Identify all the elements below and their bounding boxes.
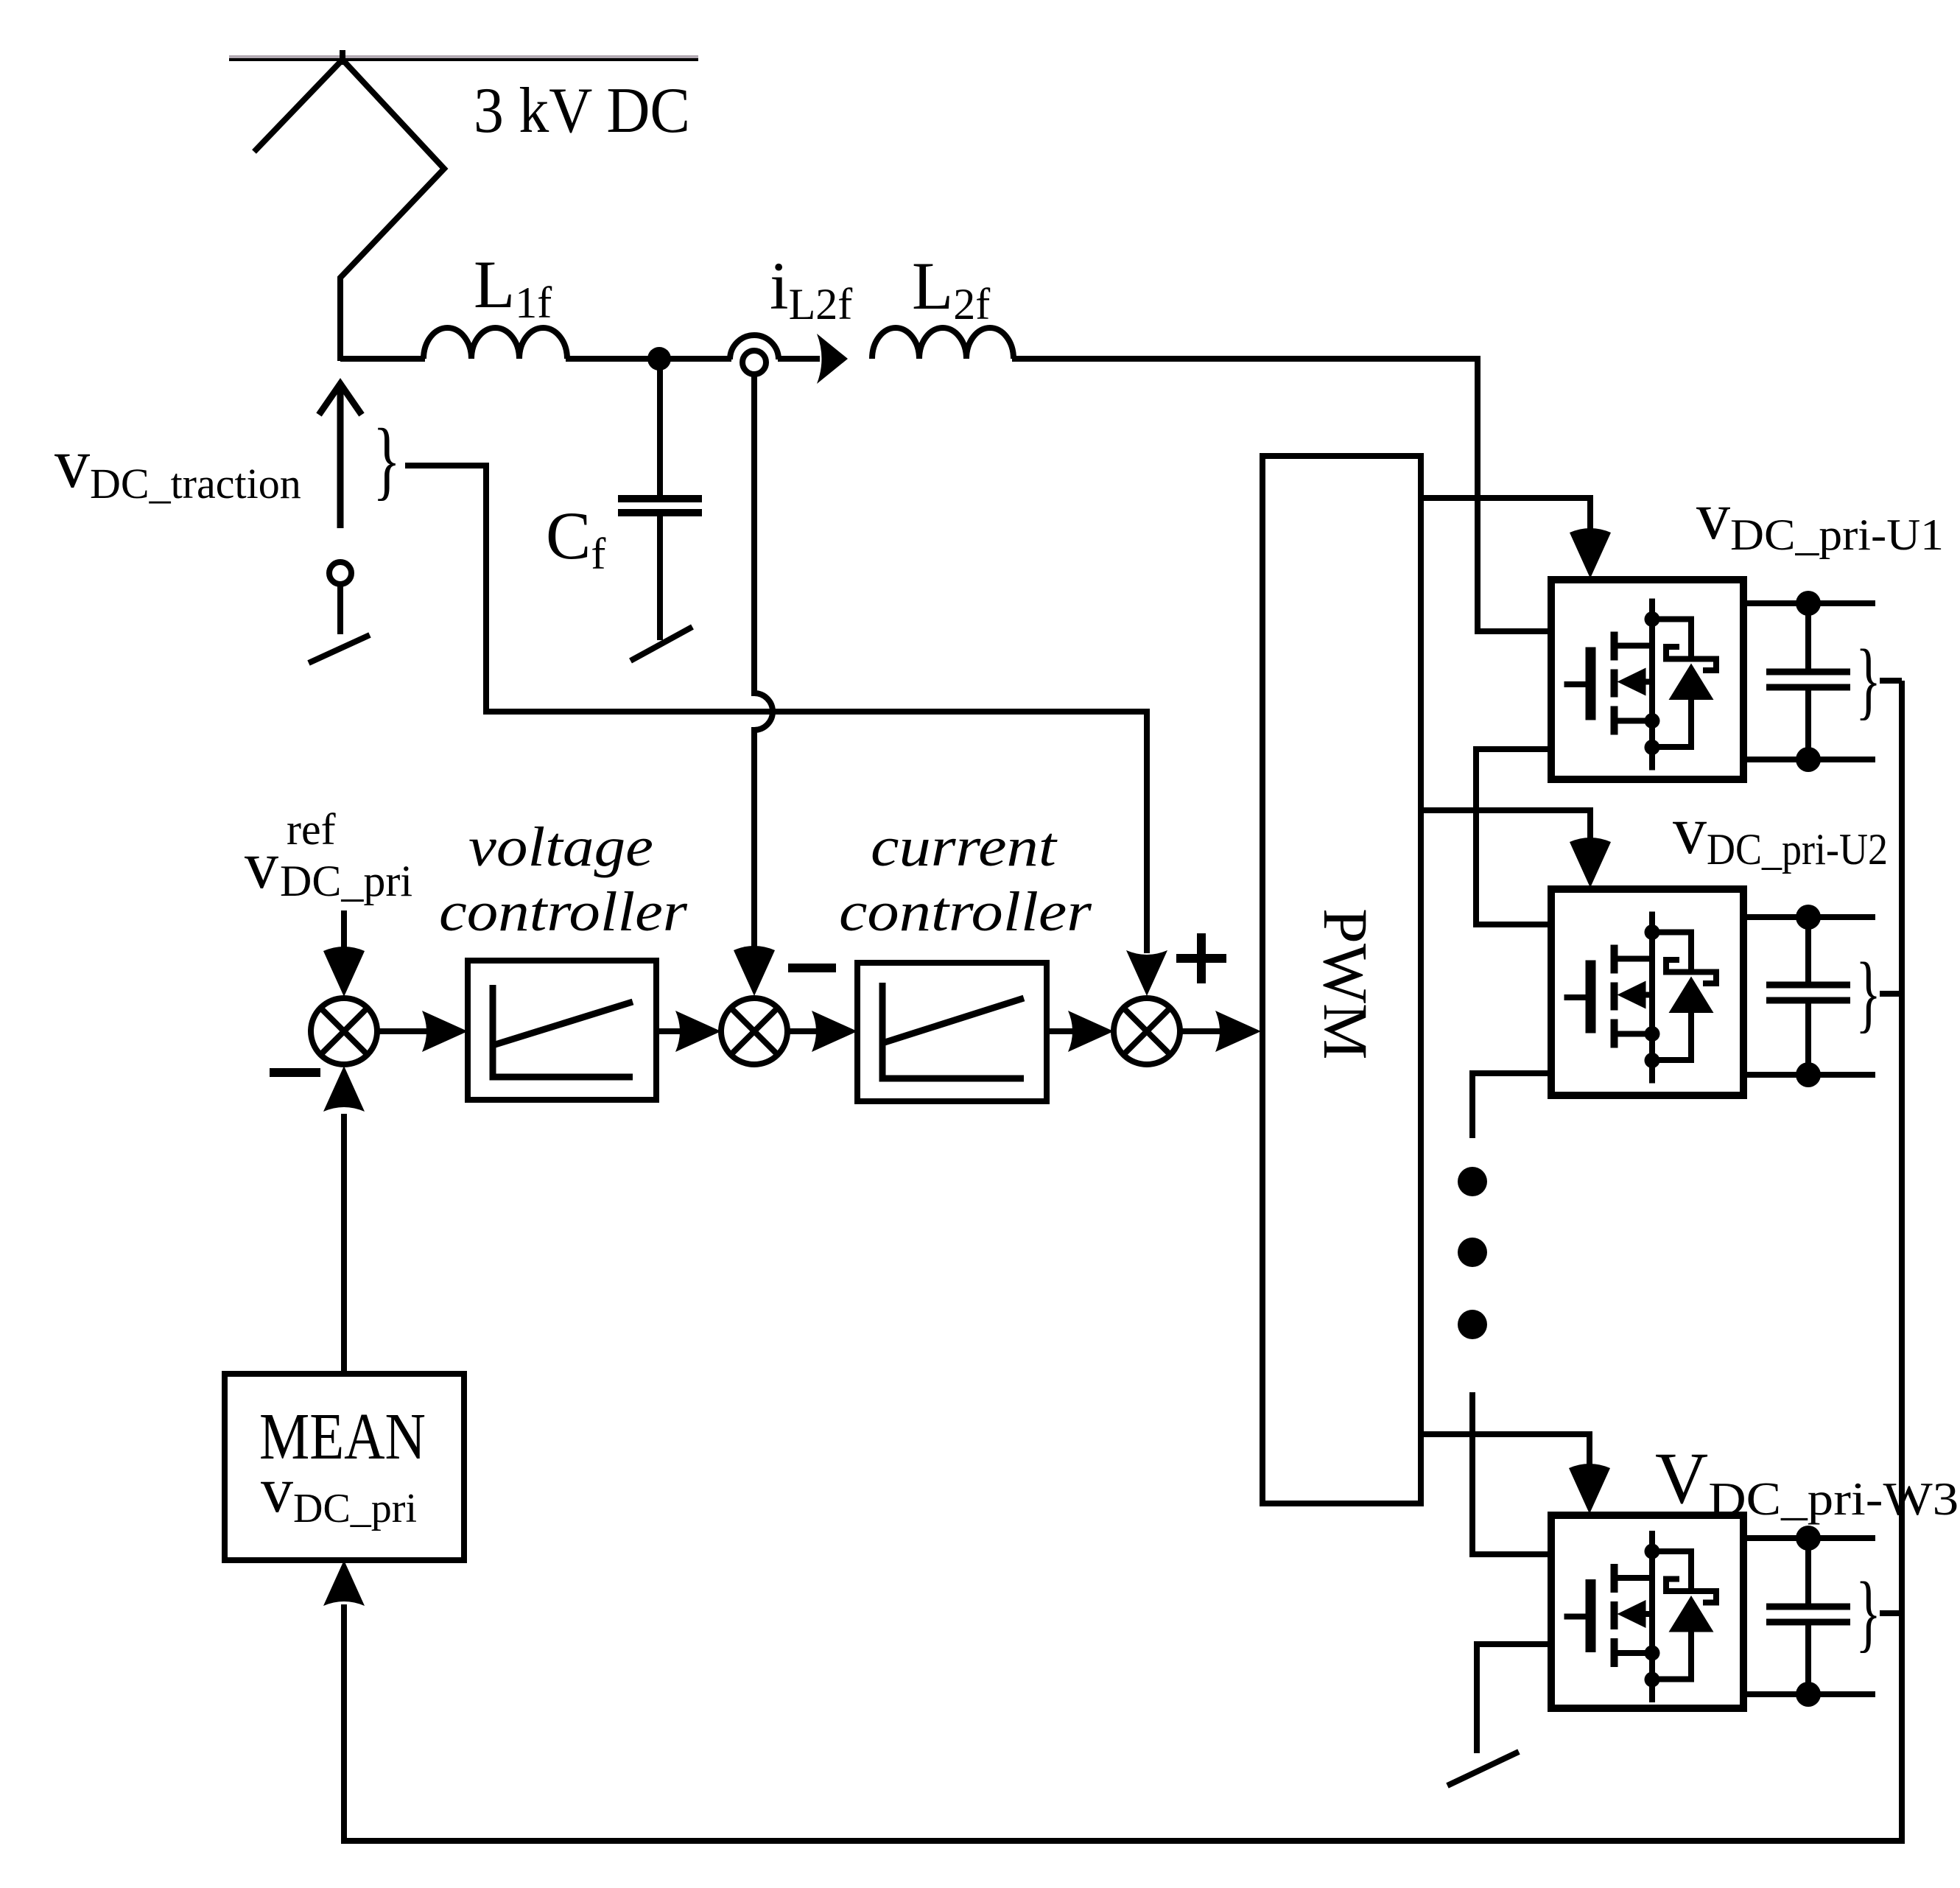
junction dot U1 output negative [1796, 747, 1821, 772]
inductor L2f [872, 328, 1014, 359]
svg-text:current: current [871, 816, 1058, 878]
svg-text:vDC_pri-U1: vDC_pri-U1 [1696, 478, 1944, 559]
converter module W3 [1551, 1515, 1743, 1708]
svg-text:ref: ref [287, 805, 336, 854]
wire W3 output negative [1743, 1691, 1875, 1697]
arrow S1 to voltage controller [378, 1028, 427, 1034]
arrow VC to summing junction S2 [656, 1028, 681, 1034]
svg-text:vDC_pri-U2: vDC_pri-U2 [1673, 793, 1888, 874]
W3 brace wire to bus [1880, 1610, 1902, 1616]
gate line PWM to W3 [1421, 1434, 1590, 1467]
svg-text:PWM: PWM [1310, 908, 1381, 1059]
capacitor U1 output (plates and leads) [1805, 603, 1811, 669]
wire: L1f to current sensor [566, 356, 731, 362]
summing junction S2 [721, 998, 787, 1064]
current controller box [857, 963, 1047, 1101]
probe circle and switch slash [329, 562, 351, 584]
plus sign at S3 [1176, 933, 1226, 983]
wire U1 output negative [1743, 757, 1875, 762]
current sensor iL2f [730, 335, 779, 359]
gate line PWM to U2 [1421, 810, 1590, 841]
wire U1 output positive [1743, 600, 1875, 606]
arrow into S1 from below (feedback) [341, 1114, 347, 1374]
svg-text:}: } [373, 410, 401, 508]
wire: pantograph to L1f [340, 356, 425, 362]
PWM block [1262, 456, 1421, 1503]
ellipsis dot 3 (more modules) [1458, 1310, 1487, 1339]
junction dot W3 output positive [1796, 1526, 1821, 1551]
arrow S2 to current controller [787, 1028, 816, 1034]
series bus: U1 negative to U2 positive [1476, 749, 1551, 924]
svg-text:Cf: Cf [546, 498, 605, 578]
arrow into summing junction S1 from top [341, 910, 347, 952]
svg-text:L2f: L2f [912, 248, 990, 329]
voltage controller box [468, 961, 656, 1100]
catenary overhead line [229, 55, 698, 58]
svg-text:L1f: L1f [474, 247, 552, 327]
node A junction dot [647, 347, 671, 371]
svg-text:vDC_traction: vDC_traction [55, 424, 301, 508]
series bus: W3 negative to open end [1477, 1644, 1551, 1753]
svg-text:v: v [245, 827, 278, 902]
junction dot U2 output positive [1796, 905, 1821, 930]
series bus: dots down to W3 positive [1472, 1392, 1551, 1554]
svg-text:voltage: voltage [468, 816, 653, 878]
converter module U2 [1551, 889, 1743, 1095]
svg-text:controller: controller [439, 881, 687, 943]
capacitor U2 output (plates and leads) [1805, 917, 1811, 982]
wire: L2f to top-right corner, down to module U1 input [1012, 359, 1551, 631]
ground slash under Cf [630, 627, 692, 661]
wire U2 output positive [1743, 914, 1875, 920]
capacitor W3 output (plates and leads) [1805, 1538, 1811, 1604]
wire W3 output positive [1743, 1535, 1875, 1541]
summing junction S1 [311, 998, 377, 1064]
arrow CC to summing junction S3 [1047, 1028, 1072, 1034]
pantograph [254, 50, 444, 361]
feedback bus right side and bottom [344, 681, 1902, 1841]
junction dot U2 output negative [1796, 1062, 1821, 1087]
svg-text:}: } [1855, 946, 1881, 1042]
arrow into MEAN block from below [323, 1560, 365, 1606]
inductor L1f [424, 328, 567, 359]
gate line PWM to U1 [1421, 498, 1590, 532]
capacitor Cf [657, 359, 663, 495]
U2 brace wire to bus [1880, 991, 1902, 997]
svg-text:}: } [1855, 1565, 1881, 1661]
junction dot U1 output positive [1796, 591, 1821, 616]
wire with arrow after sensor [778, 356, 820, 362]
U1 brace wire to bus [1880, 678, 1902, 684]
series bus: U2 negative down to dots [1472, 1073, 1551, 1138]
svg-text:iL2f: iL2f [770, 248, 852, 329]
svg-text:}: } [1855, 633, 1881, 729]
converter module U1 [1551, 580, 1743, 779]
sense wire from current sensor down to summing junction S2 (with hop) [754, 374, 773, 953]
svg-text:controller: controller [839, 881, 1092, 943]
minus sign at S1 [270, 1068, 320, 1077]
sense wire from brace to summing junction S3 [405, 466, 1147, 953]
wire U2 output negative [1743, 1072, 1875, 1078]
vDC_traction measurement arrow [337, 389, 344, 528]
MEAN block [225, 1374, 464, 1560]
ellipsis dot 1 (more modules) [1458, 1167, 1487, 1196]
ellipsis dot 2 (more modules) [1458, 1238, 1487, 1267]
summing junction S3 [1114, 998, 1180, 1064]
svg-text:DC_pri: DC_pri [280, 857, 412, 905]
svg-text:VDC_pri-W3: VDC_pri-W3 [1655, 1437, 1959, 1525]
minus sign at S2 [788, 964, 836, 972]
junction dot W3 output negative [1796, 1682, 1821, 1707]
ground slash at chain end [1447, 1752, 1519, 1786]
svg-text:3 kV DC: 3 kV DC [474, 75, 690, 147]
arrow S3 to PWM [1180, 1028, 1221, 1034]
